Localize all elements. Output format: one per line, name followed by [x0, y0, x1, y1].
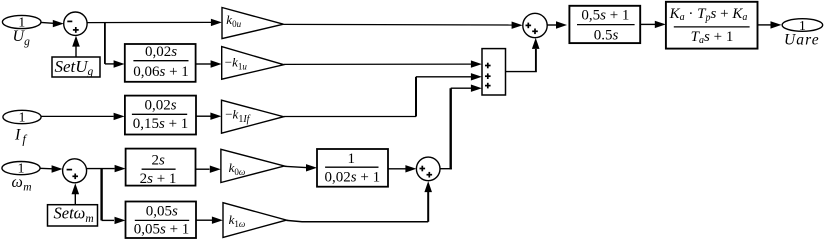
wire F4 to S4	[388, 168, 406, 170]
wire F1 to gain k1u	[196, 63, 211, 65]
input port I_f	[3, 110, 41, 125]
wire	[416, 76, 471, 78]
input port U_g	[2, 15, 41, 30]
arrowhead	[211, 60, 222, 67]
svg-text:0,02s + 1: 0,02s + 1	[325, 170, 381, 186]
wire k1If to sum block	[284, 116, 416, 118]
arrowhead	[72, 36, 80, 47]
arrowhead	[771, 21, 782, 28]
svg-text:0,15s + 1: 0,15s + 1	[133, 116, 189, 132]
svg-text:0,05s: 0,05s	[146, 203, 178, 219]
svg-text:Tas + 1: Tas + 1	[691, 29, 734, 46]
wire riser	[427, 192, 429, 222]
arrowhead	[471, 73, 482, 80]
block F7 0,05s/0,05s+1	[126, 202, 197, 239]
gain -k1u	[222, 47, 284, 80]
wire F2 to gain k1If	[196, 115, 211, 117]
arrowhead	[306, 164, 317, 171]
svg-text:2s: 2s	[152, 153, 166, 169]
block F4 1/0,02s+1	[317, 149, 388, 187]
gain -k1If	[222, 100, 284, 133]
input port omega_m	[2, 162, 40, 177]
node branch under S1	[104, 23, 106, 64]
wire S3 to F3	[87, 168, 115, 170]
wire riser	[415, 77, 417, 117]
arrowhead	[212, 217, 223, 224]
block F2 0,02s/0,15s+1	[125, 96, 196, 135]
arrowhead	[210, 166, 221, 173]
arrowhead	[471, 60, 482, 67]
wire omega_m to S3	[40, 167, 52, 170]
gain k1w	[223, 203, 287, 238]
wire k1w to S4 bottom	[287, 220, 429, 221]
arrowhead	[210, 113, 221, 120]
gain k0u	[222, 8, 283, 39]
svg-text:0,06s + 1: 0,06s + 1	[133, 64, 189, 80]
wire riser	[450, 88, 452, 169]
wire F5 to F6	[640, 23, 655, 25]
arrowhead	[512, 22, 523, 29]
block F1 0,02s/0,06s+1	[125, 44, 196, 82]
block F6 Ka Tp s + Ka / Ta s + 1	[666, 2, 758, 49]
wire k0w to F4	[284, 166, 306, 167]
output port Uare	[782, 19, 823, 34]
sum junction S5	[523, 13, 547, 37]
arrowhead	[114, 60, 125, 67]
svg-text:0,02s: 0,02s	[144, 98, 176, 114]
wire k1u to sum block	[284, 63, 471, 65]
wire S4 output	[440, 168, 452, 170]
svg-text:Uare: Uare	[784, 31, 820, 48]
arrowhead	[471, 85, 482, 92]
block SetUg	[52, 57, 100, 78]
wire sum block to S5	[506, 71, 537, 73]
arrowhead	[405, 165, 416, 172]
svg-text:0,5s + 1: 0,5s + 1	[581, 7, 629, 23]
block Set omega_m	[48, 204, 98, 226]
wire S1 to k0u	[87, 21, 212, 23]
svg-text:1: 1	[19, 111, 26, 126]
svg-text:1: 1	[348, 151, 356, 167]
sum junction S3	[63, 159, 87, 183]
block F5 0,5s+1/0.5s	[569, 6, 640, 44]
wire	[451, 87, 471, 89]
arrowhead	[114, 113, 125, 120]
arrowhead	[211, 19, 222, 26]
arrowhead	[655, 21, 666, 28]
wire SetUg to S1	[75, 46, 77, 58]
wire F3 to gain k0w	[196, 168, 210, 170]
wire	[41, 21, 54, 24]
arrowhead	[52, 165, 63, 172]
arrowhead	[115, 217, 126, 224]
gain k0w	[221, 149, 284, 182]
arrowhead	[532, 38, 540, 49]
wire F6 to output port	[758, 24, 771, 26]
sum junction S4	[416, 157, 440, 181]
arrowhead	[556, 21, 567, 28]
wire I_f to F2	[41, 115, 113, 117]
wire riser	[535, 49, 537, 72]
svg-text:0,02s: 0,02s	[145, 44, 177, 60]
svg-text:2s + 1: 2s + 1	[140, 171, 177, 187]
arrowhead	[72, 183, 80, 194]
wire branch to F7	[102, 219, 114, 221]
node branch riser	[100, 169, 102, 221]
arrowhead	[53, 20, 64, 27]
wire to block F1	[105, 63, 114, 65]
wire Setomega to S3	[74, 194, 76, 205]
arrowhead	[115, 165, 126, 172]
wire k0u to S5	[283, 23, 512, 26]
block F3 2s/2s+1	[126, 149, 196, 187]
svg-text:0,05s + 1: 0,05s + 1	[134, 222, 190, 238]
arrowhead	[424, 181, 432, 192]
svg-text:0.5s: 0.5s	[594, 28, 619, 44]
sum junction S1	[64, 12, 87, 35]
sum block (+++)	[482, 49, 506, 95]
wire F7 to gain k1w	[196, 219, 212, 221]
wire S5 to block F5	[547, 24, 556, 26]
